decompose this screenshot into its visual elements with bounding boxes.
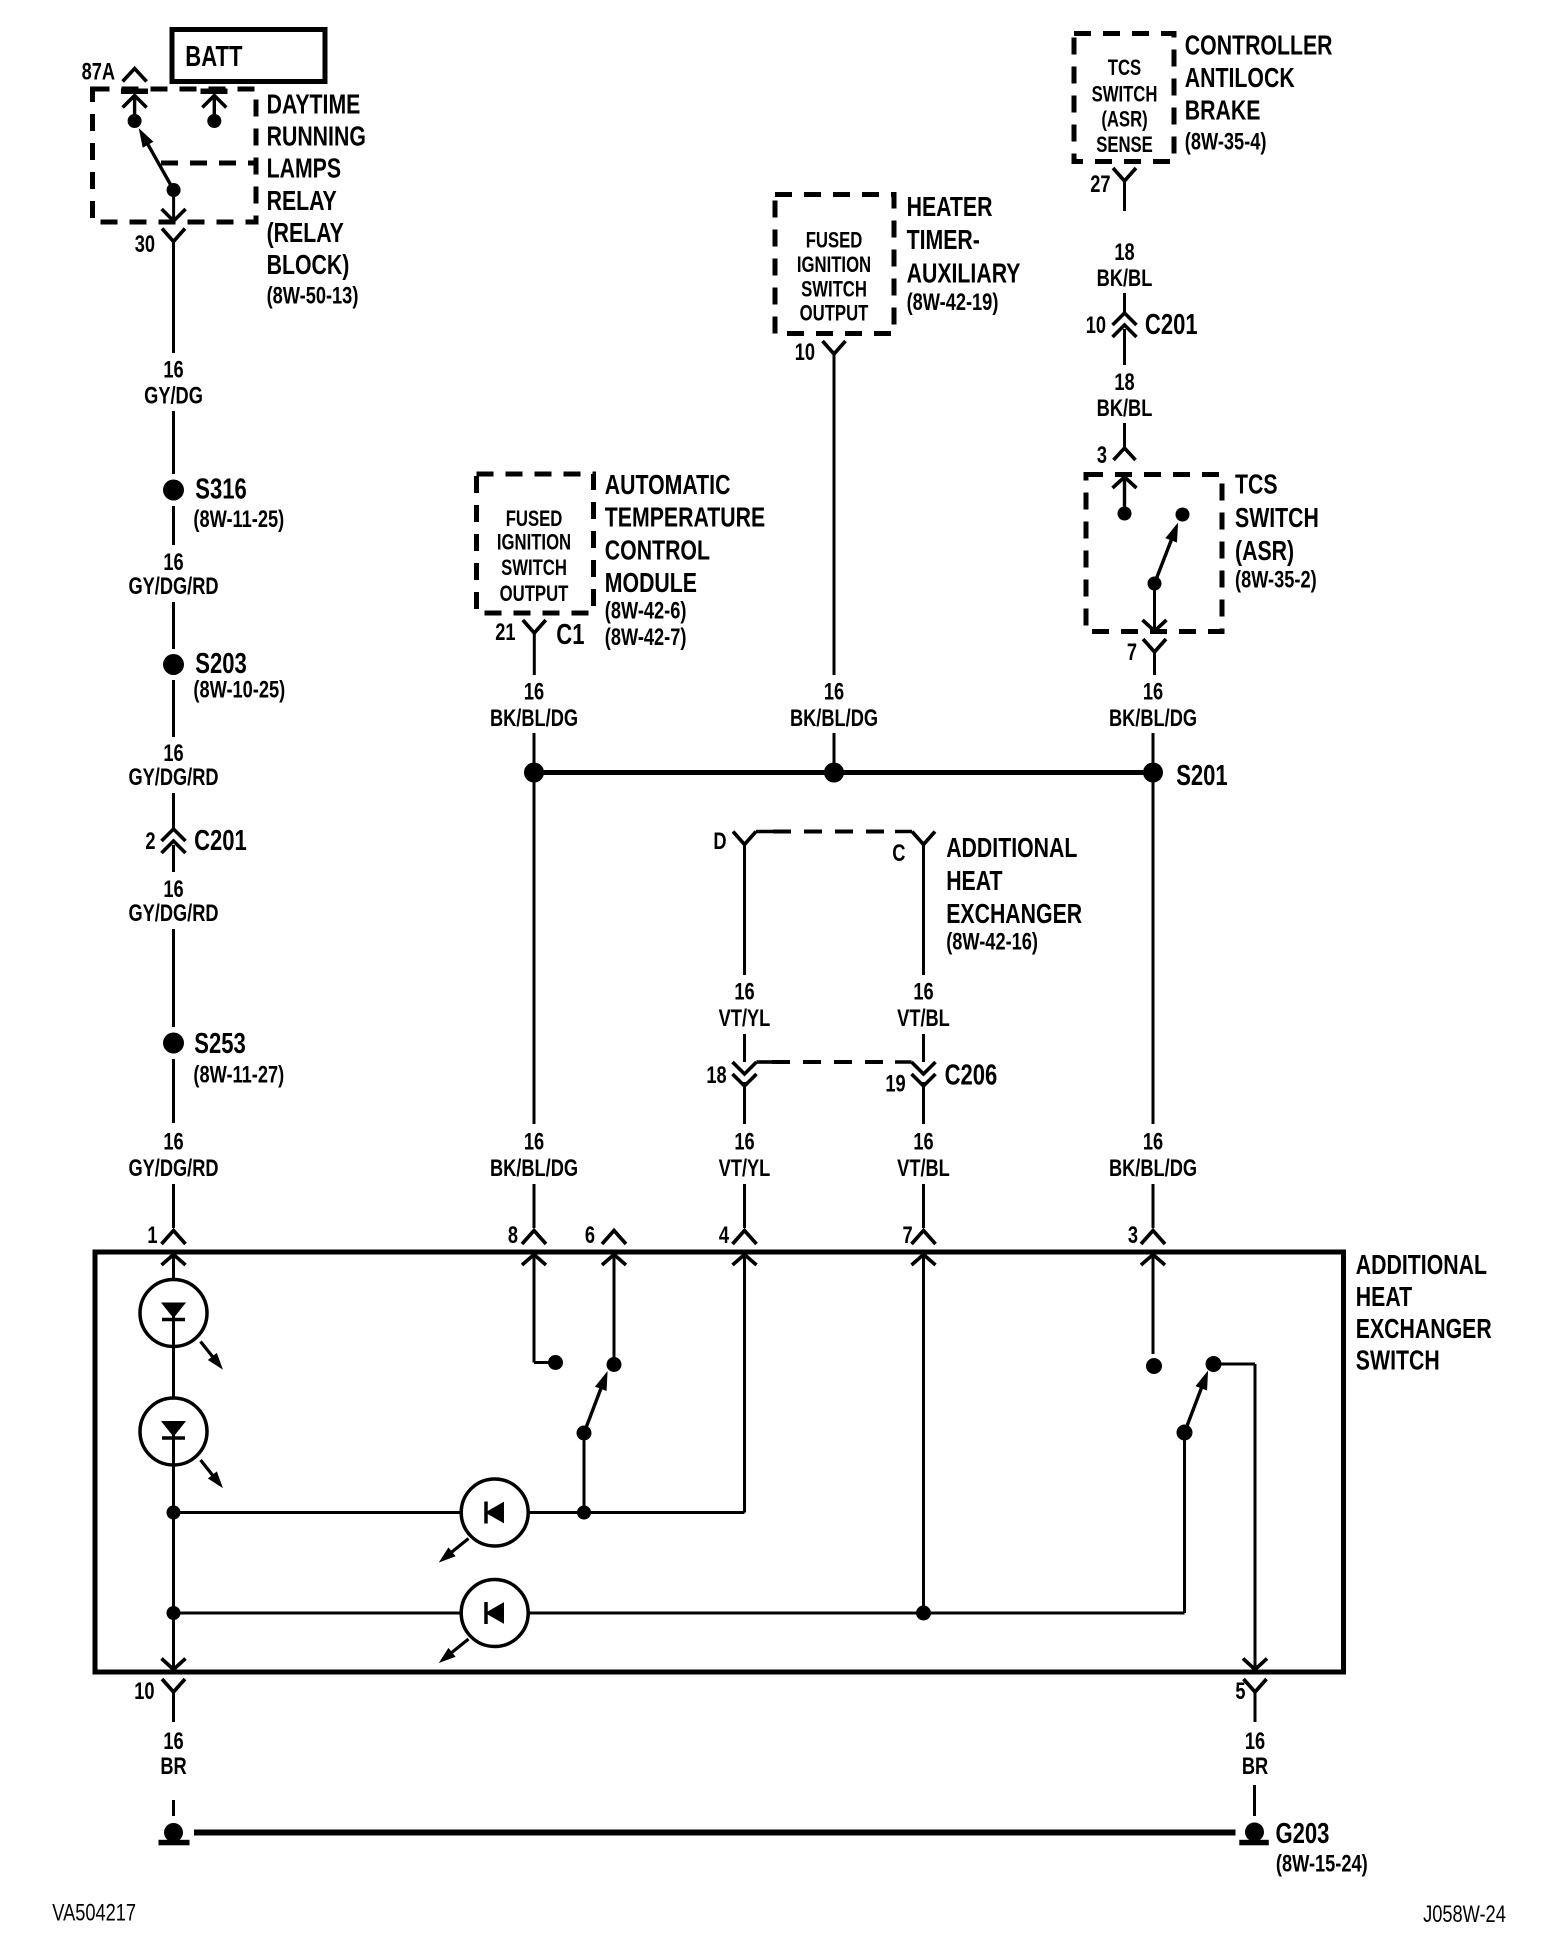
svg-text:16: 16	[163, 1728, 183, 1755]
wire	[1152, 733, 1155, 763]
TCS switch pin 3 entry arrow	[1113, 477, 1137, 488]
svg-text:HEAT: HEAT	[1356, 1281, 1412, 1313]
svg-text:AUXILIARY: AUXILIARY	[907, 258, 1021, 290]
wire arm to row 2	[1183, 1433, 1186, 1614]
switch pin 10 exit arrow	[162, 1659, 186, 1670]
wire	[922, 1082, 925, 1124]
battery feed box BATT	[172, 30, 325, 82]
svg-text:16: 16	[1143, 678, 1163, 705]
svg-text:(ASR): (ASR)	[1101, 107, 1147, 132]
junction node	[167, 1506, 181, 1520]
relay pin 30 exit arrow	[172, 190, 175, 219]
svg-text:SWITCH: SWITCH	[801, 277, 867, 302]
wire	[1123, 423, 1126, 448]
svg-text:(8W-42-19): (8W-42-19)	[907, 289, 999, 316]
wire	[172, 1465, 175, 1670]
svg-text:16: 16	[163, 549, 183, 576]
wire	[1253, 1785, 1256, 1816]
wire pin 8 into box	[533, 1255, 536, 1363]
svg-text:LAMPS: LAMPS	[267, 153, 341, 185]
diode D1	[461, 1479, 528, 1546]
svg-text:16: 16	[734, 1128, 754, 1155]
diode D2	[461, 1580, 528, 1647]
svg-text:GY/DG/RD: GY/DG/RD	[128, 1155, 218, 1182]
svg-text:16: 16	[163, 356, 183, 383]
svg-text:(RELAY: (RELAY	[267, 217, 345, 249]
svg-text:SWITCH: SWITCH	[1092, 82, 1158, 107]
splice S201	[1143, 763, 1163, 783]
svg-text:ANTILOCK: ANTILOCK	[1185, 62, 1295, 94]
svg-text:C201: C201	[194, 825, 247, 857]
svg-text:BK/BL/DG: BK/BL/DG	[790, 705, 878, 732]
wire contact to pin 5 exit	[1214, 1363, 1256, 1366]
svg-text:BK/BL/DG: BK/BL/DG	[1109, 705, 1197, 732]
svg-text:SWITCH: SWITCH	[1356, 1345, 1440, 1377]
splice junction on bus	[524, 763, 544, 783]
wire	[922, 1034, 925, 1062]
svg-text:16: 16	[913, 978, 933, 1005]
svg-text:IGNITION: IGNITION	[497, 530, 571, 555]
wire	[533, 1184, 536, 1228]
heater timer fused ignition switch output dashed box	[775, 195, 894, 334]
svg-text:TEMPERATURE: TEMPERATURE	[605, 502, 765, 534]
svg-text:RUNNING: RUNNING	[267, 121, 366, 153]
svg-text:BATT: BATT	[185, 41, 242, 73]
svg-text:(8W-10-25): (8W-10-25)	[193, 676, 285, 703]
svg-text:16: 16	[163, 876, 183, 903]
svg-text:30: 30	[135, 231, 155, 258]
wire to switch pin 1	[172, 1184, 175, 1228]
svg-text:3: 3	[1097, 442, 1107, 469]
wire	[172, 845, 175, 872]
ATC module fused ignition switch output dashed box	[477, 474, 594, 613]
svg-text:MODULE: MODULE	[605, 567, 697, 599]
svg-text:16: 16	[163, 740, 183, 767]
contact from pin 8	[548, 1355, 563, 1370]
splice junction on bus	[824, 763, 844, 783]
TCS switch fixed contact	[1118, 507, 1132, 521]
svg-text:(8W-35-4): (8W-35-4)	[1185, 128, 1267, 155]
dashed jumper C206	[757, 1060, 773, 1064]
svg-text:(8W-50-13): (8W-50-13)	[267, 282, 359, 309]
wire	[533, 733, 536, 763]
svg-text:GY/DG: GY/DG	[144, 382, 203, 409]
junction node	[916, 1606, 931, 1621]
switch pin 5 exit arrow	[1243, 1659, 1267, 1670]
wire bus S201 to switch pin 3	[1152, 782, 1155, 1124]
wire	[172, 680, 175, 737]
svg-text:AUTOMATIC: AUTOMATIC	[605, 469, 731, 501]
svg-text:(8W-42-6): (8W-42-6)	[605, 597, 687, 624]
svg-text:10: 10	[1086, 312, 1106, 339]
svg-text:(8W-42-16): (8W-42-16)	[946, 928, 1038, 955]
svg-text:16: 16	[824, 678, 844, 705]
svg-text:SWITCH: SWITCH	[1235, 502, 1319, 534]
wire pin 1 into box	[172, 1255, 175, 1282]
svg-text:VT/YL: VT/YL	[719, 1155, 771, 1182]
svg-text:C1: C1	[556, 619, 584, 651]
svg-text:GY/DG/RD: GY/DG/RD	[128, 764, 218, 791]
internal switch arm (left)	[577, 1426, 592, 1441]
ground G203 left dot	[164, 1823, 183, 1842]
svg-text:OUTPUT: OUTPUT	[800, 301, 869, 326]
svg-text:RELAY: RELAY	[267, 185, 338, 217]
ground G203	[1245, 1823, 1264, 1842]
wire	[172, 1059, 175, 1123]
svg-text:C201: C201	[1145, 309, 1198, 341]
relay switch arm	[167, 183, 181, 197]
svg-text:TCS: TCS	[1108, 56, 1141, 81]
svg-text:16: 16	[734, 978, 754, 1005]
svg-text:EXCHANGER: EXCHANGER	[946, 898, 1082, 930]
svg-text:SENSE: SENSE	[1096, 133, 1153, 158]
wire pin 3 into box	[1152, 1255, 1155, 1355]
svg-text:IGNITION: IGNITION	[797, 253, 871, 278]
svg-text:S316: S316	[195, 474, 246, 506]
svg-text:27: 27	[1090, 171, 1110, 198]
svg-text:C: C	[892, 840, 905, 867]
internal wire row 2	[174, 1612, 462, 1615]
svg-text:(8W-42-7): (8W-42-7)	[605, 624, 687, 651]
junction node	[577, 1506, 591, 1520]
wire	[172, 1347, 175, 1399]
wire pin 4 into box	[743, 1255, 746, 1513]
wire	[172, 929, 175, 1027]
wire	[833, 733, 836, 763]
wire	[172, 1800, 175, 1816]
wire pin 6 into box	[613, 1255, 616, 1365]
svg-text:HEATER: HEATER	[907, 191, 993, 223]
svg-text:BK/BL: BK/BL	[1097, 395, 1153, 422]
svg-text:16: 16	[1245, 1728, 1265, 1755]
wire	[172, 793, 175, 828]
svg-text:EXCHANGER: EXCHANGER	[1356, 1313, 1492, 1345]
svg-text:(8W-11-27): (8W-11-27)	[193, 1061, 284, 1088]
svg-text:2: 2	[145, 828, 155, 855]
wire pin 7 into box	[922, 1255, 925, 1614]
wire	[922, 1184, 925, 1228]
svg-text:S201: S201	[1176, 760, 1227, 792]
svg-text:OUTPUT: OUTPUT	[500, 582, 569, 607]
wire	[172, 506, 175, 545]
wire	[172, 602, 175, 649]
svg-text:10: 10	[795, 339, 815, 366]
svg-text:6: 6	[585, 1222, 595, 1249]
contact to pin 5	[1206, 1356, 1222, 1372]
svg-text:BR: BR	[160, 1753, 186, 1780]
relay terminal from BATT	[201, 89, 228, 95]
svg-text:G203: G203	[1276, 1818, 1330, 1850]
svg-text:GY/DG/RD: GY/DG/RD	[128, 900, 218, 927]
svg-text:3: 3	[1128, 1222, 1138, 1249]
svg-text:SWITCH: SWITCH	[501, 556, 567, 581]
svg-text:VT/YL: VT/YL	[719, 1005, 771, 1032]
svg-text:10: 10	[134, 1678, 154, 1705]
svg-text:TIMER-: TIMER-	[907, 224, 980, 256]
svg-text:S253: S253	[194, 1028, 245, 1060]
svg-text:C206: C206	[945, 1060, 998, 1092]
svg-text:(8W-35-2): (8W-35-2)	[1235, 566, 1317, 593]
svg-text:CONTROL: CONTROL	[605, 535, 710, 567]
wire D down	[743, 845, 746, 976]
svg-text:87A: 87A	[82, 58, 115, 85]
svg-text:18: 18	[1114, 239, 1134, 266]
svg-text:16: 16	[524, 1128, 544, 1155]
indicator LED 1	[140, 1280, 207, 1347]
svg-text:(8W-15-24): (8W-15-24)	[1276, 1850, 1368, 1877]
TCS switch (ASR) dashed box	[1086, 475, 1222, 632]
svg-text:VT/BL: VT/BL	[897, 1155, 950, 1182]
svg-text:GY/DG/RD: GY/DG/RD	[128, 573, 218, 600]
svg-text:VT/BL: VT/BL	[897, 1005, 950, 1032]
svg-text:J058W-24: J058W-24	[1423, 1901, 1506, 1928]
TCS switch pin 7 exit arrow	[1153, 584, 1156, 630]
CAB TCS switch sense dashed box	[1074, 34, 1174, 162]
svg-text:HEAT: HEAT	[946, 865, 1002, 897]
additional heat exchanger switch box	[95, 1252, 1344, 1672]
ground bus wire	[194, 1830, 1236, 1836]
svg-text:4: 4	[719, 1222, 729, 1249]
svg-text:VA504217: VA504217	[52, 1899, 136, 1926]
svg-text:FUSED: FUSED	[506, 507, 563, 532]
wire	[172, 411, 175, 474]
svg-text:ADDITIONAL: ADDITIONAL	[1356, 1249, 1487, 1281]
svg-text:18: 18	[706, 1062, 726, 1089]
svg-text:BK/BL/DG: BK/BL/DG	[490, 1155, 578, 1182]
relay internal dashed divider	[161, 161, 256, 166]
svg-text:16: 16	[524, 678, 544, 705]
svg-text:S203: S203	[195, 648, 246, 680]
splice S253	[163, 1033, 184, 1054]
svg-text:CONTROLLER: CONTROLLER	[1185, 30, 1333, 62]
svg-text:7: 7	[1127, 639, 1137, 666]
contact from pin 6	[607, 1357, 622, 1372]
internal wire row 1	[174, 1511, 462, 1514]
dashed jumper D to C	[773, 830, 895, 834]
svg-text:18: 18	[1114, 369, 1134, 396]
daytime running lamps relay (relay block) dashed box	[93, 89, 257, 222]
wire	[743, 1034, 746, 1062]
svg-text:BLOCK): BLOCK)	[267, 249, 350, 281]
indicator LED 2	[140, 1398, 207, 1465]
svg-text:ADDITIONAL: ADDITIONAL	[946, 832, 1077, 864]
svg-text:7: 7	[902, 1222, 912, 1249]
svg-text:BR: BR	[1242, 1753, 1268, 1780]
svg-text:D: D	[713, 828, 726, 855]
TCS switch arm	[1148, 577, 1162, 591]
bus wire S201	[534, 770, 1153, 775]
svg-text:16: 16	[163, 1128, 183, 1155]
wire C down	[922, 845, 925, 976]
svg-text:19: 19	[885, 1070, 905, 1097]
svg-text:BK/BL/DG: BK/BL/DG	[490, 705, 578, 732]
svg-text:(ASR): (ASR)	[1235, 535, 1294, 567]
wire	[1152, 1184, 1155, 1228]
wire	[1123, 293, 1126, 312]
svg-text:16: 16	[913, 1128, 933, 1155]
wire bus to switch pin 8	[533, 782, 536, 1124]
svg-text:(8W-11-25): (8W-11-25)	[193, 506, 284, 533]
wire	[1123, 329, 1126, 365]
svg-text:21: 21	[495, 619, 515, 646]
TCS switch open contact	[1176, 508, 1190, 522]
wire	[743, 1082, 746, 1124]
wire heater timer to bus	[833, 383, 836, 675]
svg-text:BK/BL/DG: BK/BL/DG	[1109, 1155, 1197, 1182]
contact from pin 3	[1146, 1358, 1162, 1374]
svg-text:TCS: TCS	[1235, 469, 1278, 501]
splice S203	[163, 654, 184, 675]
svg-text:DAYTIME: DAYTIME	[267, 89, 361, 121]
wire	[743, 1184, 746, 1228]
svg-text:BRAKE: BRAKE	[1185, 95, 1261, 127]
svg-text:1: 1	[147, 1222, 157, 1249]
junction node	[167, 1606, 181, 1620]
svg-text:FUSED: FUSED	[806, 228, 863, 253]
splice S316	[163, 480, 184, 501]
svg-text:16: 16	[1143, 1128, 1163, 1155]
svg-text:BK/BL: BK/BL	[1097, 265, 1153, 292]
internal switch arm (right)	[1177, 1425, 1193, 1441]
svg-text:8: 8	[508, 1222, 518, 1249]
wire relay pin30 to S316	[172, 242, 175, 354]
